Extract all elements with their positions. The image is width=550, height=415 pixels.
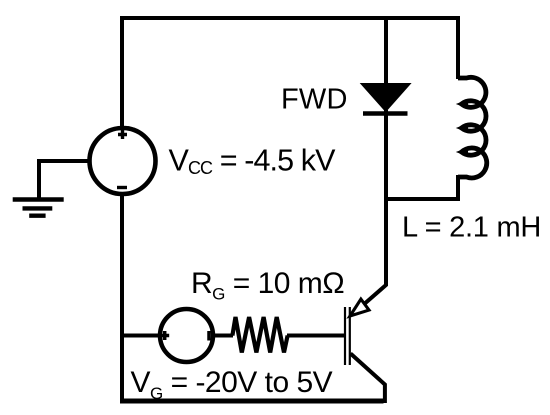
svg-text:VCC = -4.5 kV: VCC = -4.5 kV [169,144,337,178]
svg-text:L = 2.1 mH: L = 2.1 mH [402,212,541,244]
wire RG to gate [287,334,344,338]
wire emitter [351,354,385,404]
wire left rail lower [120,196,124,403]
wire left rail upper [120,16,124,130]
wire inductor top [456,16,460,79]
diode cathode bar [363,111,408,116]
collector arrowhead [350,299,369,316]
svg-text:FWD: FWD [281,84,348,116]
wire VG left [122,334,159,338]
wire bottom rail [120,399,384,404]
ground [13,200,64,216]
transistor Q1 gate bar [344,307,346,365]
svg-text:VG = -20V to 5V: VG = -20V to 5V [131,366,333,403]
wire diode branch top [384,16,388,88]
VG minus [207,331,211,341]
inductor coil cusp beaks [456,99,468,156]
wire ground stem [37,159,41,199]
wire VG to RG [214,334,233,338]
VG plus [160,331,169,340]
transistor Q1 body bar [349,307,351,365]
VCC minus [117,186,127,189]
voltage source VG [160,309,213,362]
diode FWD [361,84,411,112]
wire collector [363,110,387,306]
wire top rail [120,16,460,20]
wire VCC to ground [37,159,90,163]
voltage source VCC [90,128,156,194]
wire inductor bottom [384,175,460,199]
resistor RG [232,317,287,353]
svg-text:RG = 10 mΩ: RG = 10 mΩ [191,267,344,304]
VCC plus [118,130,127,139]
inductor L coil [458,77,487,178]
